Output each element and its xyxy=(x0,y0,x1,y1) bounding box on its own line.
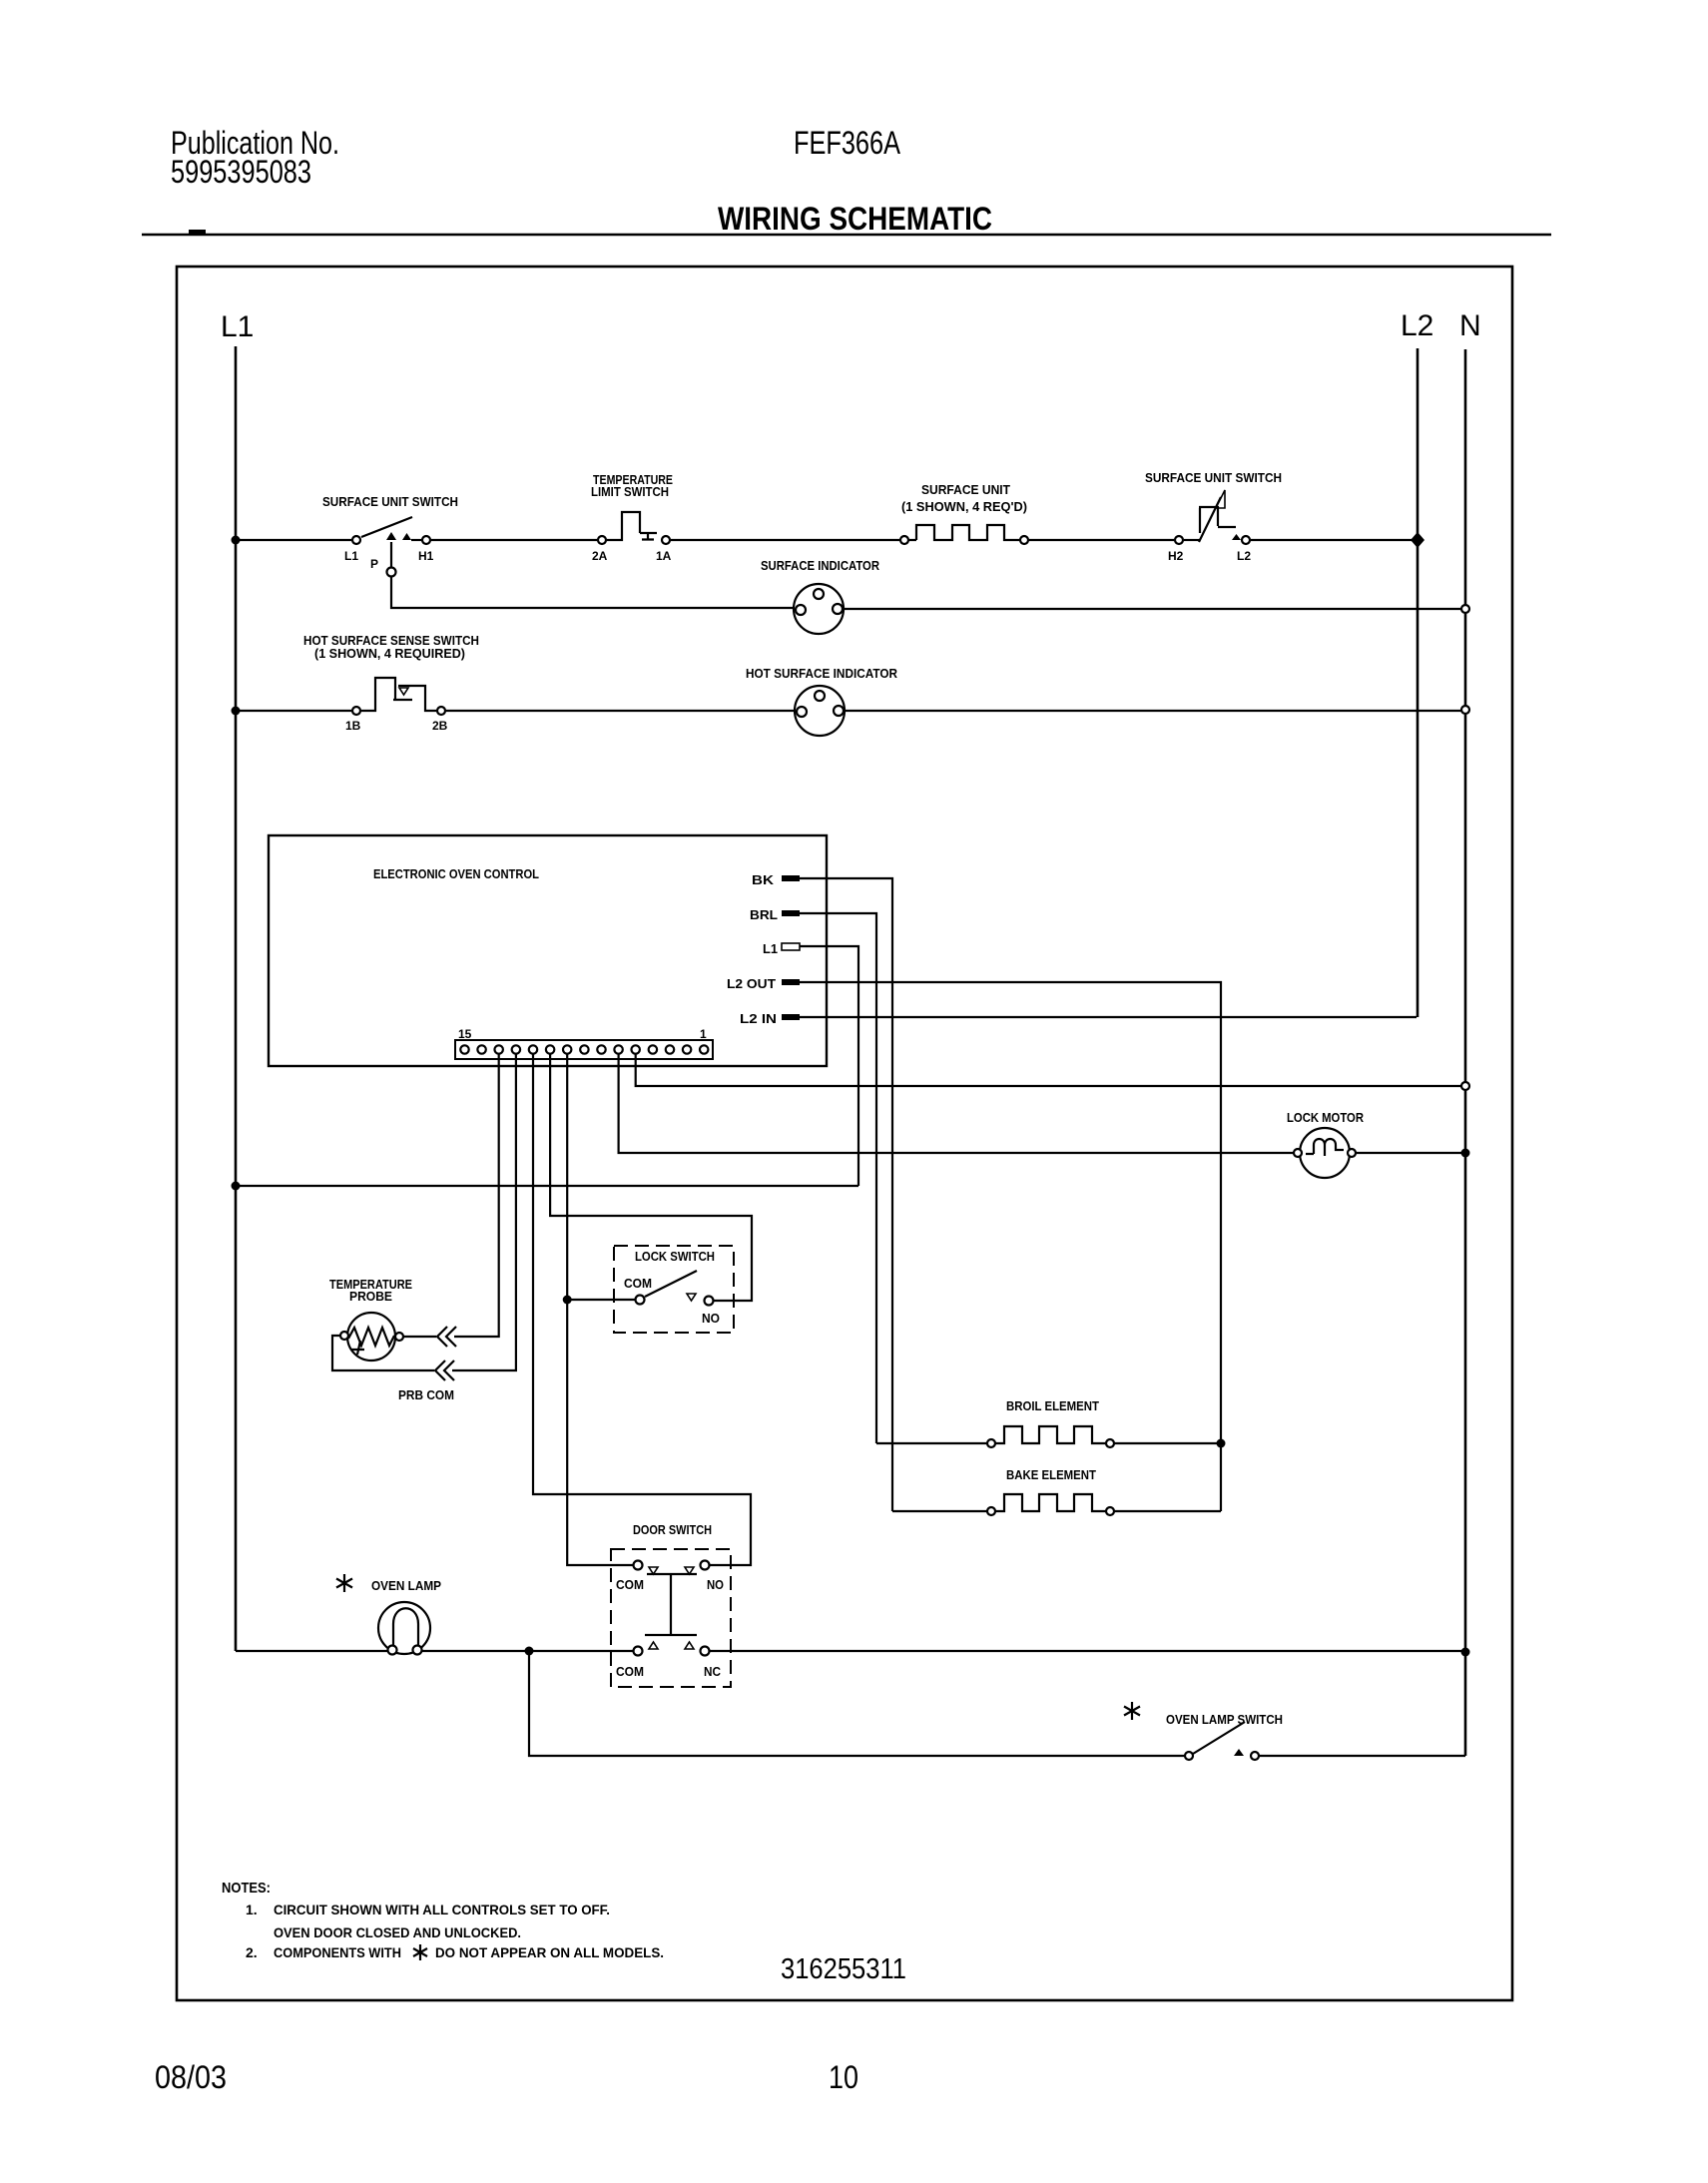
svg-text:1A: 1A xyxy=(656,549,672,563)
wire: L1 bus vertical xyxy=(235,346,238,1651)
hot surface sense switch terminal 2B xyxy=(437,707,445,715)
svg-text:2A: 2A xyxy=(592,549,608,563)
svg-text:15: 15 xyxy=(458,1027,472,1041)
wire: P branch drop from switch xyxy=(390,542,392,567)
oven lamp switch blade xyxy=(1193,1722,1245,1754)
terminal strip pin 6 xyxy=(614,1045,622,1053)
door switch lower COM terminal xyxy=(634,1647,643,1656)
wire: H2 to blade root xyxy=(1184,539,1200,541)
svg-text:FEF366A: FEF366A xyxy=(794,125,901,161)
temperature limit switch ledge xyxy=(640,532,657,534)
svg-text:SURFACE UNIT SWITCH: SURFACE UNIT SWITCH xyxy=(1145,470,1282,485)
lock switch NO terminal xyxy=(705,1297,714,1306)
wire: bottom line L1 bus corner to oven lamp xyxy=(236,1650,388,1652)
node: open junction on N bus row2 xyxy=(1461,605,1469,613)
wire: pin11 drop then over and down to door switch NO xyxy=(533,1054,751,1565)
temperature probe left terminal xyxy=(340,1332,348,1340)
svg-text:L2: L2 xyxy=(1401,309,1433,342)
svg-text:P: P xyxy=(370,557,378,571)
lock switch NO contact triangle xyxy=(687,1294,696,1301)
surface indicator right pin xyxy=(833,604,843,614)
terminal strip pin 5 xyxy=(632,1045,640,1053)
wire: lock motor to N bus xyxy=(1356,1152,1465,1154)
wire: N bus vertical xyxy=(1464,349,1467,1756)
svg-text:WIRING SCHEMATIC: WIRING SCHEMATIC xyxy=(718,201,992,237)
wire: pin6 drop to lock motor line xyxy=(619,1054,1299,1153)
oven lamp switch contact triangle xyxy=(1234,1749,1244,1756)
svg-text:10: 10 xyxy=(829,2059,858,2095)
oven lamp switch right terminal xyxy=(1251,1752,1259,1760)
svg-text:L1: L1 xyxy=(763,941,778,956)
door switch actuator xyxy=(645,1574,697,1635)
hot surface indicator right pin xyxy=(834,706,844,716)
svg-text:ELECTRONIC OVEN CONTROL: ELECTRONIC OVEN CONTROL xyxy=(373,866,539,881)
svg-text:BAKE ELEMENT: BAKE ELEMENT xyxy=(1006,1467,1096,1482)
bake element right terminal xyxy=(1106,1507,1114,1515)
svg-text:NC: NC xyxy=(704,1664,722,1679)
wire: L1 bus feed to EOC L1 xyxy=(236,1185,858,1187)
svg-text:N: N xyxy=(1459,309,1481,342)
svg-text:1: 1 xyxy=(700,1027,707,1041)
door switch upper NO terminal xyxy=(701,1561,710,1570)
terminal strip pin 2 xyxy=(683,1045,691,1053)
terminal strip pin 11 xyxy=(529,1045,537,1053)
svg-text:316255311: 316255311 xyxy=(781,1953,906,1985)
node: L1 bus junction to EOC L1 wire xyxy=(232,1182,241,1191)
surface unit heating element xyxy=(909,525,1019,540)
wire: branch to lock switch COM xyxy=(567,1299,636,1301)
wire row3: indicator to N bus xyxy=(845,710,1461,712)
asterisk for oven lamp switch xyxy=(1124,1702,1140,1720)
wire row1: surface unit to H2 xyxy=(1029,539,1174,541)
surface indicator left pin xyxy=(796,605,806,615)
svg-text:LOCK SWITCH: LOCK SWITCH xyxy=(635,1249,715,1264)
header rule thick dash xyxy=(189,230,206,234)
terminal strip pin 13 xyxy=(495,1045,503,1053)
door switch lower NC terminal xyxy=(701,1647,710,1656)
svg-text:COM: COM xyxy=(616,1664,644,1679)
node: diamond junction at L2 bus row1 xyxy=(1411,532,1424,548)
terminal strip pin 14 xyxy=(477,1045,485,1053)
hot surface sense switch hump xyxy=(361,678,412,711)
door switch lower contact triangle right xyxy=(685,1642,694,1649)
oven lamp right terminal xyxy=(413,1646,422,1655)
svg-text:PRB COM: PRB COM xyxy=(398,1387,454,1402)
wire: pin9 drop to door switch COM xyxy=(567,1054,634,1565)
svg-text:LOCK MOTOR: LOCK MOTOR xyxy=(1287,1110,1365,1125)
oven lamp switch left terminal xyxy=(1185,1752,1193,1760)
terminal strip pin 15 xyxy=(460,1045,468,1053)
broil element right terminal xyxy=(1106,1439,1114,1447)
wire: BRL wire to broil element xyxy=(876,1442,987,1444)
lock motor right terminal xyxy=(1348,1149,1356,1157)
svg-text:H1: H1 xyxy=(418,549,434,563)
wire: pin12 drop to probe common xyxy=(452,1054,516,1370)
svg-text:(1 SHOWN, 4 REQ'D): (1 SHOWN, 4 REQ'D) xyxy=(901,499,1027,514)
surface indicator top pin xyxy=(814,589,824,599)
terminal strip pin 9 xyxy=(563,1045,571,1053)
node: junction on N bus bottom line xyxy=(1461,1648,1470,1657)
svg-text:L2: L2 xyxy=(1237,549,1251,563)
terminal strip pin 10 xyxy=(546,1045,554,1053)
broil element left terminal xyxy=(987,1439,995,1447)
surface indicator lamp body xyxy=(794,584,844,634)
surface unit switch SW2 terminal L2 xyxy=(1242,536,1250,544)
surface unit switch SW2 cam outline xyxy=(1199,507,1236,533)
svg-text:COM: COM xyxy=(624,1276,652,1291)
node: open junction on N bus pin5 wire xyxy=(1461,1082,1469,1090)
wire: pin10 drop then over and down to lock switch NO xyxy=(550,1054,752,1301)
svg-text:DO NOT APPEAR ON ALL MODELS.: DO NOT APPEAR ON ALL MODELS. xyxy=(435,1944,664,1960)
wire: L2 bus vertical xyxy=(1417,348,1420,1017)
svg-text:L1: L1 xyxy=(221,310,254,343)
surface unit switch SW2 contact triangle xyxy=(1232,534,1241,540)
svg-text:OVEN DOOR CLOSED AND UNLOCKED.: OVEN DOOR CLOSED AND UNLOCKED. xyxy=(274,1924,521,1940)
door switch upper contact triangle right xyxy=(685,1567,694,1574)
node: L1 bus junction row3 xyxy=(232,707,241,716)
pin stub L2 IN xyxy=(782,1014,800,1020)
svg-text:BROIL ELEMENT: BROIL ELEMENT xyxy=(1006,1398,1099,1413)
terminal strip pin 1 xyxy=(700,1045,708,1053)
svg-text:LIMIT SWITCH: LIMIT SWITCH xyxy=(591,484,669,499)
node: junction on N bus lock motor xyxy=(1461,1149,1470,1158)
bake heating element xyxy=(995,1494,1106,1511)
svg-text:(1 SHOWN, 4 REQUIRED): (1 SHOWN, 4 REQUIRED) xyxy=(314,646,465,661)
door switch upper COM terminal xyxy=(634,1561,643,1570)
wire row1: 1A to surface unit xyxy=(671,539,899,541)
wire: oven lamp to door switch lower COM xyxy=(422,1650,633,1652)
temperature probe resistor zigzag xyxy=(348,1328,394,1346)
node: junction broil at L2 OUT wire xyxy=(1217,1439,1226,1448)
lock motor winding m xyxy=(1306,1139,1344,1156)
svg-text:OVEN LAMP SWITCH: OVEN LAMP SWITCH xyxy=(1166,1712,1283,1727)
wire: BRL from stub right then down to broil element xyxy=(800,913,876,1443)
wire row1: triangle to H1 terminal xyxy=(411,539,422,541)
surface unit switch SW1 contact triangle 2 xyxy=(402,533,411,540)
svg-text:NOTES:: NOTES: xyxy=(222,1880,271,1897)
surface unit switch SW1 terminal H1 xyxy=(422,536,430,544)
terminal strip of EOC xyxy=(455,1040,713,1059)
hot surface sense switch ledge xyxy=(398,686,436,711)
terminal strip pin 4 xyxy=(649,1045,657,1053)
node: junction pin9 wire to lock switch COM xyxy=(563,1296,572,1305)
node: open junction on N bus row3 xyxy=(1461,706,1469,714)
pin stub L2 OUT xyxy=(782,979,800,985)
svg-text:L1: L1 xyxy=(344,549,358,563)
broil heating element xyxy=(995,1426,1106,1443)
wire row3: 2B to hot surface indicator xyxy=(446,710,796,712)
surface unit element left terminal xyxy=(900,536,908,544)
svg-text:SURFACE UNIT: SURFACE UNIT xyxy=(921,482,1010,497)
surface unit switch SW2 terminal H2 xyxy=(1175,536,1183,544)
oven lamp left terminal xyxy=(388,1646,397,1655)
bake element left terminal xyxy=(987,1507,995,1515)
svg-text:BK: BK xyxy=(752,872,775,887)
svg-text:L2 OUT: L2 OUT xyxy=(727,976,776,991)
door switch upper contact triangle left xyxy=(649,1567,658,1574)
connector chevrons on probe lead xyxy=(437,1327,456,1347)
terminal strip pin 3 xyxy=(666,1045,674,1053)
svg-text:COM: COM xyxy=(616,1577,644,1592)
wire: pin13 drop to temperature probe xyxy=(454,1054,499,1337)
wire: L1 from stub right then down to L1 feed wire xyxy=(800,946,858,1186)
temperature limit switch terminal 2A xyxy=(598,536,606,544)
temperature limit switch contact tick xyxy=(642,534,654,540)
temperature limit switch terminal 1A xyxy=(662,536,670,544)
svg-text:DOOR SWITCH: DOOR SWITCH xyxy=(633,1522,712,1537)
wire: L2 IN from stub right to L2 bus xyxy=(800,1016,1417,1018)
surface unit switch SW1 contact triangle 1 xyxy=(386,532,396,540)
terminal P circle xyxy=(387,568,396,577)
wire: probe right lead to chevron connector xyxy=(403,1336,436,1338)
lock switch blade xyxy=(645,1271,697,1297)
oven lamp filament loop xyxy=(393,1608,418,1648)
hot surface sense switch contact triangle xyxy=(399,688,408,695)
terminal strip pin 7 xyxy=(597,1045,605,1053)
wire: BK wire to bake element xyxy=(892,1510,987,1512)
pin stub L1 (open) xyxy=(782,943,800,950)
asterisk for oven lamp xyxy=(336,1574,352,1592)
wire row1: L2 terminal to L2 bus xyxy=(1251,539,1418,541)
temperature probe body xyxy=(347,1313,395,1361)
temperature probe stem mark xyxy=(351,1341,364,1355)
wire: BK from stub right then down to bake element xyxy=(800,878,892,1511)
svg-text:NO: NO xyxy=(702,1311,720,1326)
temperature probe right terminal xyxy=(395,1333,403,1341)
connector chevrons on PRB COM lead xyxy=(435,1361,454,1380)
svg-text:H2: H2 xyxy=(1168,549,1184,563)
lock motor left terminal xyxy=(1294,1149,1302,1157)
svg-text:1.: 1. xyxy=(246,1902,258,1917)
schematic border frame xyxy=(177,267,1512,2000)
wire row1: L1 bus to switch xyxy=(236,539,351,541)
surface unit switch SW1 blade xyxy=(361,517,412,537)
svg-text:2B: 2B xyxy=(432,719,448,733)
header rule line xyxy=(142,234,1551,237)
surface unit element right terminal xyxy=(1020,536,1028,544)
hot surface sense switch terminal 1B xyxy=(352,707,360,715)
wire: P branch down to row2 xyxy=(391,577,795,608)
node: L1 bus junction row1 xyxy=(232,536,241,545)
wire: L2 OUT from stub right then down to elements xyxy=(800,982,1221,1511)
hot surface indicator lamp body xyxy=(795,686,845,736)
node: junction bottom line to oven lamp switch branch xyxy=(525,1647,534,1656)
svg-text:L2 IN: L2 IN xyxy=(740,1011,777,1026)
svg-text:BRL: BRL xyxy=(750,907,778,922)
wire: pin5 drop to N bus xyxy=(636,1054,1461,1086)
electronic oven control box U1 xyxy=(269,835,827,1066)
pin stub BRL xyxy=(782,910,800,916)
temperature limit switch hump xyxy=(607,512,640,540)
svg-text:5995395083: 5995395083 xyxy=(171,154,311,190)
hot surface indicator top pin xyxy=(815,691,825,701)
svg-text:SURFACE UNIT SWITCH: SURFACE UNIT SWITCH xyxy=(322,494,458,509)
svg-text:2.: 2. xyxy=(246,1944,258,1960)
wire: door switch NC to N bus xyxy=(710,1650,1465,1652)
wire row1: H1 to 2A xyxy=(431,539,597,541)
svg-text:HOT SURFACE INDICATOR: HOT SURFACE INDICATOR xyxy=(746,666,898,681)
svg-text:COMPONENTS WITH: COMPONENTS WITH xyxy=(274,1944,401,1960)
door switch dashed enclosure xyxy=(611,1549,731,1687)
wire: broil element to L2 OUT vertical xyxy=(1114,1442,1221,1444)
wire row2: indicator to N bus xyxy=(844,608,1461,610)
lock motor body xyxy=(1300,1128,1350,1178)
svg-text:1B: 1B xyxy=(345,719,361,733)
hot surface indicator left pin xyxy=(797,707,807,717)
svg-text:CIRCUIT SHOWN WITH ALL CONTROL: CIRCUIT SHOWN WITH ALL CONTROLS SET TO O… xyxy=(274,1902,610,1917)
wire row3: L1 bus to 1B xyxy=(236,710,351,712)
wire: bake element to L2 OUT vertical xyxy=(1114,1510,1221,1512)
terminal strip pin 12 xyxy=(512,1045,520,1053)
svg-text:SURFACE INDICATOR: SURFACE INDICATOR xyxy=(761,558,880,573)
pin stub BK xyxy=(782,875,800,881)
door switch lower contact triangle left xyxy=(649,1642,658,1649)
svg-text:08/03: 08/03 xyxy=(155,2059,227,2095)
surface unit switch SW1 terminal L1 xyxy=(352,536,360,544)
terminal strip pin 8 xyxy=(580,1045,588,1053)
oven lamp body xyxy=(378,1602,430,1654)
lock switch COM terminal xyxy=(636,1296,645,1305)
svg-text:PROBE: PROBE xyxy=(349,1289,392,1304)
surface unit switch SW2 blade with arrowhead xyxy=(1199,497,1221,542)
svg-text:NO: NO xyxy=(707,1577,724,1592)
note 2 asterisk xyxy=(413,1944,427,1960)
svg-text:OVEN LAMP: OVEN LAMP xyxy=(371,1578,441,1593)
lock switch dashed enclosure xyxy=(614,1246,734,1333)
wire: probe left lead down to PRB COM chevron xyxy=(332,1336,434,1370)
wire: oven lamp switch to N bus xyxy=(1259,1755,1465,1757)
wire: branch down to oven lamp switch xyxy=(529,1651,1185,1756)
